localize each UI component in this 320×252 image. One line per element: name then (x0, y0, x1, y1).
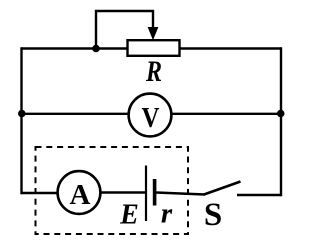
svg-text:V: V (142, 102, 160, 134)
node junction top (92, 45, 100, 53)
wire battery to switch (156, 193, 205, 195)
wire top-left horizontal (22, 47, 129, 49)
battery boundary box (dashed) (36, 147, 189, 234)
svg-text:A: A (70, 179, 91, 211)
wire top-right horizontal (179, 47, 282, 49)
battery long plate (145, 166, 147, 222)
wire right vertical (280, 47, 282, 196)
ammeter A circle (58, 171, 101, 214)
node junction left (18, 110, 26, 118)
svg-text:r: r (161, 198, 173, 230)
svg-text:S: S (204, 197, 222, 233)
wire left vertical (20, 47, 22, 194)
svg-text:R: R (145, 56, 162, 88)
svg-text:E: E (119, 200, 139, 231)
voltmeter V circle (129, 94, 172, 137)
wire bottom-left (22, 192, 59, 194)
wire switch to right (237, 194, 281, 196)
resistor R body (128, 40, 180, 56)
wire rheostat slider tap (96, 11, 153, 49)
rheostat arrow head (148, 27, 159, 40)
wire voltmeter left (22, 113, 130, 115)
node junction right (277, 110, 285, 118)
wire ammeter to battery (100, 191, 146, 193)
switch S lever (204, 182, 241, 195)
wire voltmeter right (171, 113, 281, 115)
battery short plate (153, 179, 157, 206)
